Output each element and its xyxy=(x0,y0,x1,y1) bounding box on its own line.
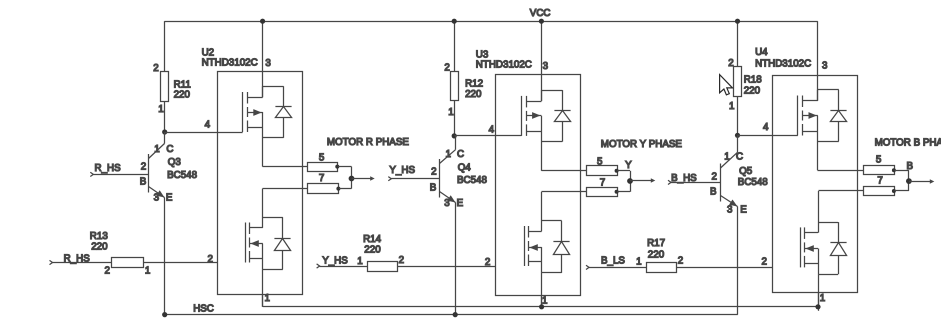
svg-text:1: 1 xyxy=(357,256,362,267)
svg-text:3: 3 xyxy=(543,61,549,72)
svg-text:NTHD3102C: NTHD3102C xyxy=(202,58,258,69)
svg-text:MOTOR B PHASE: MOTOR B PHASE xyxy=(875,138,941,149)
svg-text:3: 3 xyxy=(444,198,450,209)
svg-text:B_LS: B_LS xyxy=(601,255,625,266)
svg-text:2: 2 xyxy=(399,255,404,266)
svg-text:4: 4 xyxy=(205,119,211,130)
svg-text:4: 4 xyxy=(763,122,769,133)
svg-text:220: 220 xyxy=(744,86,761,97)
svg-text:VCC: VCC xyxy=(530,8,551,19)
svg-text:4: 4 xyxy=(489,125,495,136)
svg-text:Y_HS: Y_HS xyxy=(322,255,348,266)
svg-text:220: 220 xyxy=(364,245,381,256)
svg-text:R12: R12 xyxy=(465,78,483,89)
svg-text:5: 5 xyxy=(597,157,603,168)
svg-text:HSC: HSC xyxy=(193,303,214,314)
svg-text:2: 2 xyxy=(762,256,767,267)
svg-text:BC548: BC548 xyxy=(167,170,198,181)
svg-text:220: 220 xyxy=(174,90,191,101)
svg-text:C: C xyxy=(457,149,464,160)
svg-text:1: 1 xyxy=(729,101,734,112)
svg-text:2: 2 xyxy=(153,63,158,74)
svg-text:MOTOR R PHASE: MOTOR R PHASE xyxy=(327,137,409,148)
svg-text:2: 2 xyxy=(712,172,717,183)
svg-text:Q4: Q4 xyxy=(458,163,472,174)
svg-text:E: E xyxy=(166,193,173,204)
svg-text:3: 3 xyxy=(154,193,160,204)
svg-text:R17: R17 xyxy=(647,238,665,249)
svg-text:2: 2 xyxy=(485,257,490,268)
svg-text:R_HS: R_HS xyxy=(95,163,122,174)
svg-text:U4: U4 xyxy=(755,47,768,58)
svg-text:BC548: BC548 xyxy=(457,175,488,186)
svg-text:E: E xyxy=(740,205,747,216)
svg-text:NTHD3102C: NTHD3102C xyxy=(476,59,532,70)
svg-text:1: 1 xyxy=(724,151,729,162)
svg-text:220: 220 xyxy=(465,89,482,100)
svg-text:B: B xyxy=(430,182,437,193)
svg-text:B: B xyxy=(140,177,147,188)
svg-text:3: 3 xyxy=(822,61,828,72)
svg-text:1: 1 xyxy=(265,293,270,304)
svg-text:2: 2 xyxy=(105,266,110,277)
svg-text:1: 1 xyxy=(154,144,159,155)
svg-text:1: 1 xyxy=(636,257,641,268)
svg-text:1: 1 xyxy=(145,266,150,277)
svg-text:7: 7 xyxy=(877,176,882,187)
svg-text:3: 3 xyxy=(727,205,733,216)
svg-text:1: 1 xyxy=(448,107,453,118)
svg-text:1: 1 xyxy=(446,149,451,160)
svg-text:220: 220 xyxy=(91,241,108,252)
svg-text:NTHD3102C: NTHD3102C xyxy=(755,59,811,70)
svg-text:B_HS: B_HS xyxy=(671,173,697,184)
svg-text:5: 5 xyxy=(876,154,882,165)
svg-text:3: 3 xyxy=(265,58,271,69)
svg-text:2: 2 xyxy=(444,63,449,74)
svg-text:Q3: Q3 xyxy=(168,157,182,168)
svg-text:2: 2 xyxy=(728,58,733,69)
svg-text:R18: R18 xyxy=(744,75,763,86)
svg-text:220: 220 xyxy=(648,250,665,261)
svg-text:Y: Y xyxy=(625,160,632,171)
svg-text:2: 2 xyxy=(678,256,683,267)
svg-text:B: B xyxy=(710,186,717,197)
svg-text:C: C xyxy=(736,151,743,162)
svg-text:1: 1 xyxy=(158,104,163,115)
svg-text:Y_HS: Y_HS xyxy=(389,165,415,176)
svg-text:1: 1 xyxy=(820,293,825,304)
svg-text:R14: R14 xyxy=(363,234,382,245)
svg-text:7: 7 xyxy=(319,173,324,184)
svg-text:5: 5 xyxy=(319,152,325,163)
svg-text:C: C xyxy=(166,144,173,155)
svg-text:B: B xyxy=(907,161,914,172)
svg-text:R_HS: R_HS xyxy=(64,253,91,264)
svg-text:2: 2 xyxy=(208,254,213,265)
svg-text:Q5: Q5 xyxy=(739,166,753,177)
svg-text:2: 2 xyxy=(431,167,436,178)
svg-text:7: 7 xyxy=(600,178,605,189)
svg-text:MOTOR Y PHASE: MOTOR Y PHASE xyxy=(601,139,683,150)
svg-text:2: 2 xyxy=(141,162,146,173)
svg-text:BC548: BC548 xyxy=(738,177,769,188)
svg-text:E: E xyxy=(457,198,464,209)
